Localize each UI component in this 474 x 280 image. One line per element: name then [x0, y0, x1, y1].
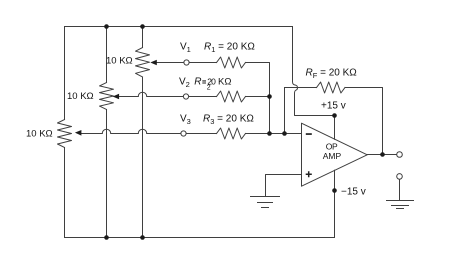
svg-text:10 KΩ: 10 KΩ [106, 56, 133, 67]
junction dot bottom bus / middle rail [104, 235, 109, 240]
potentiometer P2 10K element [100, 83, 114, 110]
resistor RF 20K [317, 82, 346, 93]
wiper arrow pot P3 [75, 130, 82, 136]
junction dot output node [380, 152, 385, 157]
wire hop V3 over middle rail [102, 129, 111, 133]
label minus input [306, 133, 312, 135]
wiper arrow pot P1 [150, 60, 157, 66]
wire V2 row wiper segment [118, 96, 138, 98]
svg-text:+15 v: +15 v [321, 101, 346, 112]
wire right rail upper [142, 27, 144, 48]
svg-text:KΩ: KΩ [218, 77, 231, 88]
wire V2 row to R2 [147, 96, 217, 98]
svg-text:R: R [194, 77, 201, 88]
junction dot bottom bus / right rail [140, 235, 145, 240]
wire summing row to op-amp minus input [246, 133, 302, 135]
wire right rail lower [142, 77, 144, 238]
terminal circle V1 [184, 60, 189, 65]
svg-text:V2: V2 [179, 77, 190, 90]
junction dot top bus / middle rail [104, 24, 109, 29]
wire RF row left segment [285, 87, 317, 89]
svg-text:RF = 20 KΩ: RF = 20 KΩ [306, 68, 358, 81]
svg-text:2: 2 [207, 84, 211, 91]
svg-text:10 KΩ: 10 KΩ [67, 91, 94, 102]
svg-text:V3: V3 [180, 114, 191, 127]
terminal circle output [397, 152, 403, 158]
label plus input [306, 171, 312, 177]
wire op-amp output [367, 154, 396, 156]
potentiometer P1 10K element [136, 48, 150, 78]
junction dot top bus / right rail [140, 24, 145, 29]
wire middle rail lower [106, 110, 108, 238]
wire middle rail upper [106, 27, 108, 83]
wire +15 supply drop with hop over RF wire [293, 27, 335, 140]
ground GND2 bars [387, 201, 414, 209]
junction dot -15 supply [332, 188, 337, 193]
junction dot summing node A [267, 131, 272, 136]
resistor R2 20K [217, 91, 246, 102]
wire hop V3 over right rail [138, 129, 147, 133]
wire plus input to ground [266, 175, 302, 197]
svg-text:R1 = 20 KΩ: R1 = 20 KΩ [204, 42, 255, 55]
junction dot R2 summing [267, 94, 272, 99]
svg-text:−15 v: −15 v [341, 187, 366, 198]
wire V3 row between rails [111, 133, 138, 135]
op-amp U1 triangle [302, 123, 368, 186]
wire feedback left drop to summing node [284, 88, 286, 134]
svg-text:10 KΩ: 10 KΩ [26, 129, 53, 140]
wire lower terminal stub [399, 179, 401, 200]
wire RF out to output column [345, 88, 383, 155]
resistor R3 20K [217, 128, 246, 139]
wire R1 out to summing column [246, 63, 270, 134]
wire V1 row wiper to R1 [156, 62, 216, 64]
wiper arrow pot P2 [113, 94, 120, 100]
wire R2 out to summing node [246, 96, 270, 98]
junction dot +15 supply [332, 113, 337, 118]
wire bottom -15V bus [65, 237, 335, 239]
svg-text:OP: OP [326, 141, 338, 151]
wire left rail lower [64, 148, 66, 238]
wire V3 row wiper segment [81, 133, 102, 135]
wire top +15V bus [65, 26, 293, 28]
resistor R1 20K [217, 57, 246, 68]
wire -15 riser to op-amp [334, 170, 336, 237]
wire V3 row to R3 [147, 133, 217, 135]
terminal circle output return [397, 174, 403, 180]
svg-text:R3 = 20 KΩ: R3 = 20 KΩ [203, 114, 254, 127]
wire left rail upper [64, 27, 66, 120]
potentiometer P3 10K element [58, 120, 72, 148]
terminal circle V2 [183, 94, 188, 99]
junction dot feedback at summing row [282, 131, 287, 136]
svg-text:V1: V1 [180, 42, 191, 55]
svg-text:AMP: AMP [323, 151, 342, 161]
ground GND1 bars [251, 197, 280, 208]
wire hop V2 over right rail [138, 92, 147, 96]
terminal circle V3 [181, 131, 186, 136]
